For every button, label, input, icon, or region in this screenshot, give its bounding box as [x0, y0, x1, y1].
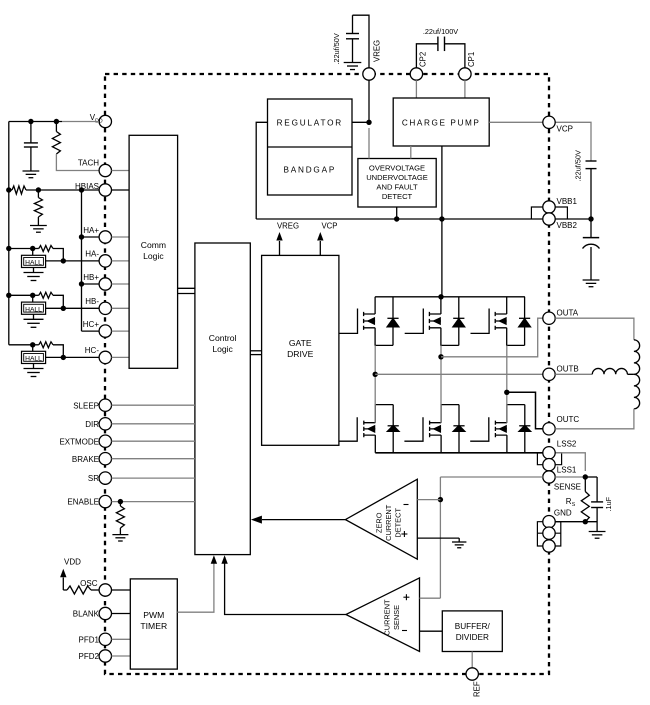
wire VDD row: [9, 121, 62, 123]
wire TACH to comm logic: [112, 170, 130, 172]
tie bracket LSS2-LSS1: [537, 453, 561, 465]
wire charge pump to fault detect block: [410, 146, 412, 159]
hall sensor 1 output wire: [46, 260, 99, 262]
wire DIR to control logic: [112, 423, 195, 425]
pin HC+: [99, 325, 111, 337]
svg-text:TACH: TACH: [78, 159, 99, 168]
op-amp ZERO CURRENT DETECT: [345, 479, 417, 559]
hall sensor 2 output wire: [46, 307, 99, 309]
transistor low-side Q5 with body diode: [404, 405, 464, 453]
node VDD resistor: [54, 119, 59, 124]
wire fault detect block to VBB bus: [396, 207, 398, 219]
wire VREG pin down to regulator node: [368, 80, 370, 122]
wire OUTB to motor winding: [555, 373, 592, 375]
svg-text:REGULATOR: REGULATOR: [277, 119, 343, 128]
svg-text:DRIVE: DRIVE: [287, 349, 314, 359]
wire ZCD plus input to ground: [417, 537, 459, 539]
resistor Rs current sense: [584, 477, 586, 492]
pin CP2: [410, 68, 422, 80]
hall sensor 1 box: [22, 255, 46, 267]
block BUFFER/DIVIDER: [442, 611, 502, 652]
svg-text:EXTMODE: EXTMODE: [59, 437, 99, 446]
svg-text:VREG: VREG: [277, 221, 299, 230]
capacitor .22uf/50V on VREG: [352, 15, 354, 33]
svg-text:HALL: HALL: [25, 260, 42, 267]
bus control logic to gate drive: [250, 350, 261, 352]
capacitor VBB bulk electrolytic: [590, 219, 592, 238]
resistor hall 2 pull-up: [33, 294, 39, 296]
pin VDD: [99, 115, 111, 127]
ground for HBIAS divider: [30, 225, 47, 227]
wire VREG node down to fault detect block: [368, 128, 370, 159]
svg-text:.22uf/50V: .22uf/50V: [574, 150, 583, 181]
svg-text:DETECT: DETECT: [382, 192, 413, 201]
resistor TACH pull-up: [55, 122, 57, 132]
bridge top rail VBB: [375, 296, 525, 298]
svg-text:HC-: HC-: [85, 346, 100, 355]
pin HBIAS: [99, 184, 111, 196]
capacitor .22uf/100V between CP2 and CP1: [416, 44, 438, 68]
node VBB rail junction: [438, 294, 443, 299]
node VREG junction: [366, 120, 371, 125]
svg-text:TIMER: TIMER: [140, 621, 167, 631]
node phase C: [504, 390, 509, 395]
svg-text:REF: REF: [473, 681, 482, 697]
capacitor .22uf/50V on VCP: [586, 160, 597, 162]
wire current sense output to control logic: [225, 557, 346, 615]
transistor low-side Q4 with body diode: [339, 405, 399, 453]
bridge bottom rail LSS: [375, 452, 543, 454]
svg-text:VBB2: VBB2: [557, 221, 578, 230]
block GATE DRIVE: [262, 255, 339, 445]
wire OUTA to motor winding: [555, 318, 634, 340]
wire HC- to comm logic: [112, 356, 130, 358]
pin OUTC: [543, 423, 555, 435]
wire regulator output to VREG node: [352, 121, 369, 123]
svg-text:VCP: VCP: [321, 221, 337, 230]
svg-text:SR: SR: [88, 474, 99, 483]
pin SENSE: [543, 471, 555, 483]
wire current sense plus input: [420, 597, 441, 599]
pin EXTMODE: [99, 435, 111, 447]
svg-text:CURRENT: CURRENT: [383, 599, 392, 636]
ground for hall sensor 1: [33, 268, 35, 273]
wire HB+ to comm logic: [112, 283, 130, 285]
VCP supply arrow into gate drive: [319, 241, 321, 255]
capacitor .1uF across Rs: [596, 477, 598, 502]
wire phase B to OUTB pin: [375, 373, 543, 375]
chip boundary (dashed): [105, 74, 549, 674]
svg-text:HBIAS: HBIAS: [75, 182, 99, 191]
VDD arrow for OSC resistor: [62, 578, 64, 591]
wire phase C to OUTC pin: [507, 392, 543, 429]
svg-text:.1uF: .1uF: [604, 496, 613, 511]
transistor high-side Q3 with body diode: [471, 297, 531, 346]
capacitor on VDD: [30, 122, 32, 143]
wire HA+ to comm logic: [112, 236, 130, 238]
block CHARGE PUMP: [393, 98, 489, 146]
svg-text:Logic: Logic: [143, 251, 164, 261]
pin VBB2: [543, 213, 555, 225]
resistor OSC timing: [67, 586, 91, 594]
pin OUTA: [543, 312, 555, 324]
svg-text:HALL: HALL: [25, 306, 42, 313]
ground for ENABLE pulldown: [112, 534, 128, 536]
wire VREG pin to bypass cap: [353, 15, 370, 68]
svg-text:GND: GND: [554, 508, 572, 517]
svg-text:SENSE: SENSE: [392, 605, 401, 630]
hall sensor 3 output wire: [46, 356, 99, 358]
pin TACH: [99, 164, 111, 176]
tie bracket GND pins: [537, 522, 560, 546]
svg-text:VBB1: VBB1: [557, 197, 578, 206]
wire LSS to sense resistor: [555, 453, 585, 471]
node phase B: [373, 372, 378, 377]
svg-text:LSS1: LSS1: [557, 465, 577, 474]
wire CP2 to charge pump: [415, 80, 417, 98]
wire HC+ to hall bias line: [82, 330, 99, 332]
inductor motor winding C: [634, 374, 640, 409]
hall sensor 3 supply wire: [9, 344, 33, 346]
pin HB-: [99, 302, 111, 314]
svg-text:.22uf/50V: .22uf/50V: [332, 33, 341, 64]
wire phase A to OUTA pin: [441, 318, 543, 357]
wire HB+ to hall bias line: [82, 283, 99, 285]
pin GND 2: [543, 527, 555, 539]
wire SLEEP to control logic: [112, 404, 195, 406]
wire charge pump down to bridge rail: [441, 146, 443, 297]
inductor motor winding B: [592, 368, 634, 374]
svg-text:DIVIDER: DIVIDER: [456, 633, 489, 642]
block Control Logic: [195, 243, 250, 555]
svg-text:HALL: HALL: [25, 356, 42, 363]
wire PFD1 to pwm timer: [112, 638, 131, 640]
node zero current detect input: [438, 497, 443, 502]
wire HA- to comm logic: [112, 260, 130, 262]
svg-text:.22uf/100V: .22uf/100V: [423, 27, 458, 36]
transistor low-side Q6 with body diode: [470, 405, 530, 453]
ground for VBB cap: [583, 279, 600, 281]
svg-text:VCP: VCP: [557, 125, 573, 134]
svg-text:LSS2: LSS2: [557, 440, 577, 449]
pin OSC: [99, 584, 111, 596]
wire SENSE line internal: [440, 476, 542, 478]
wire SR to control logic: [112, 477, 195, 479]
ground for VREG cap: [344, 62, 362, 64]
node charge pump line on VBB bus: [439, 216, 444, 221]
svg-text:ZERO: ZERO: [375, 512, 384, 533]
op-amp CURRENT SENSE: [346, 578, 420, 652]
ground for ZCD plus input: [452, 541, 466, 543]
phase column A: [440, 345, 442, 422]
pin DIR: [99, 418, 111, 430]
block REGULATOR / BANDGAP: [268, 99, 353, 195]
svg-text:BANDGAP: BANDGAP: [283, 166, 336, 175]
resistor hall 3 pull-up: [33, 344, 39, 346]
hall sensor 2 box: [22, 302, 46, 314]
pin GND: [543, 516, 555, 528]
wire pwm timer output to control logic: [177, 557, 214, 612]
transistor high-side Q1 with body diode: [339, 297, 399, 346]
svg-text:ENABLE: ENABLE: [67, 498, 99, 507]
pin VREG: [363, 68, 375, 80]
pin HB+: [99, 278, 111, 290]
svg-text:UNDERVOLTAGE: UNDERVOLTAGE: [366, 173, 428, 182]
svg-text:Control: Control: [209, 333, 237, 343]
wire BRAKE to control logic: [112, 458, 195, 460]
svg-text:PFD2: PFD2: [79, 652, 100, 661]
svg-text:PFD1: PFD1: [79, 635, 100, 644]
resistor ENABLE pulldown: [119, 502, 121, 506]
ground for hall sensor 2: [33, 314, 35, 319]
node Rs bottom: [583, 519, 588, 524]
pin OUTB: [543, 368, 555, 380]
wire ZCD output to control logic: [262, 519, 345, 521]
block PWM TIMER: [130, 579, 177, 669]
node VDD cap: [28, 119, 33, 124]
svg-text:HA+: HA+: [83, 226, 99, 235]
pin BRAKE: [99, 453, 111, 465]
svg-text:DETECT: DETECT: [394, 508, 403, 538]
svg-text:PWM: PWM: [143, 610, 164, 620]
transistor high-side Q2 with body diode: [405, 297, 465, 346]
node HBIAS divider: [36, 187, 41, 192]
node fault detect on VBB bus: [394, 216, 399, 221]
svg-text:Comm: Comm: [141, 240, 166, 250]
svg-text:AND FAULT: AND FAULT: [376, 183, 418, 192]
pin LSS2: [543, 447, 555, 459]
ground for VDD cap: [23, 170, 40, 172]
wire buffer to REF pin: [471, 652, 473, 675]
hall sensor 1 supply wire: [9, 248, 33, 250]
pin BLANK: [99, 607, 111, 619]
wire current sense minus input to buffer: [420, 630, 443, 632]
wire GND pin to ground node: [555, 521, 597, 523]
svg-text:CHARGE PUMP: CHARGE PUMP: [402, 119, 481, 128]
block OVERVOLTAGE UNDERVOLTAGE AND FAULT DETECT: [358, 159, 436, 208]
ground for hall sensor 3: [33, 364, 35, 369]
svg-text:OUTB: OUTB: [557, 364, 579, 373]
wire PFD2 to pwm timer: [112, 655, 131, 657]
wire ENABLE to control logic: [112, 501, 195, 503]
svg-text:CP2: CP2: [418, 52, 427, 67]
hall sensor 3 box: [22, 351, 46, 363]
wire sense signal down to comparators: [439, 477, 441, 598]
pin VCP: [543, 116, 555, 128]
wire HB- to comm logic: [112, 307, 130, 309]
wire regulator input from VBB bus: [256, 122, 267, 219]
svg-text:OUTC: OUTC: [557, 415, 580, 424]
svg-text:CP1: CP1: [467, 52, 476, 67]
pin ENABLE: [99, 495, 111, 507]
wire CP1 to charge pump: [464, 80, 466, 98]
resistor hall 1 pull-up: [33, 248, 39, 250]
node ENABLE pulldown: [118, 499, 123, 504]
resistor HBIAS upper: [9, 189, 12, 191]
svg-text:SLEEP: SLEEP: [73, 401, 99, 410]
tie bracket VBB1-VBB2: [531, 207, 567, 219]
svg-text:S: S: [572, 502, 576, 508]
pin PFD1: [99, 633, 111, 645]
block Comm Logic: [129, 135, 178, 368]
wire EXTMODE to control logic: [112, 440, 195, 442]
phase column C: [506, 345, 508, 422]
wire OSC to pwm timer: [112, 589, 131, 591]
node VBB cap junction: [588, 216, 593, 221]
pin CP1: [459, 68, 471, 80]
node sense resistor top: [583, 474, 588, 479]
pin REF: [466, 668, 478, 680]
svg-text:HC+: HC+: [83, 320, 100, 329]
svg-text:BLANK: BLANK: [73, 610, 100, 619]
pin HC-: [99, 351, 111, 363]
svg-text:BRAKE: BRAKE: [72, 455, 99, 464]
wire charge pump to VCP pin and cap: [489, 122, 591, 161]
left VDD rail: [8, 122, 10, 345]
resistor HBIAS lower: [37, 190, 39, 198]
svg-text:HB-: HB-: [85, 297, 99, 306]
svg-text:GATE: GATE: [289, 338, 312, 348]
pin HA-: [99, 255, 111, 267]
pin HA+: [99, 231, 111, 243]
svg-text:OUTA: OUTA: [557, 308, 579, 317]
svg-text:HA-: HA-: [85, 250, 99, 259]
pin GND 3: [543, 540, 555, 552]
wire BLANK to pwm timer: [112, 613, 131, 615]
wire motor winding to OUTC: [555, 409, 634, 429]
svg-text:Logic: Logic: [212, 344, 233, 354]
bus comm logic to control logic: [178, 287, 195, 289]
wire ZCD minus input: [417, 499, 440, 501]
svg-text:HB+: HB+: [83, 273, 99, 282]
ground for sense network: [589, 531, 606, 533]
node phase A: [438, 354, 443, 359]
svg-text:OSC: OSC: [80, 579, 98, 588]
node HBIAS rail: [6, 187, 11, 192]
VREG supply arrow into gate drive: [279, 241, 281, 255]
svg-text:VDD: VDD: [64, 558, 81, 567]
inductor motor winding A: [634, 340, 640, 375]
svg-text:OVERVOLTAGE: OVERVOLTAGE: [369, 164, 425, 173]
wire HA+ to hall bias line: [82, 236, 99, 238]
svg-text:SENSE: SENSE: [554, 482, 581, 491]
pin LSS1: [543, 459, 555, 471]
svg-text:DIR: DIR: [85, 420, 99, 429]
svg-text:BUFFER/: BUFFER/: [455, 622, 491, 631]
pin SR: [99, 472, 111, 484]
hall sensor 2 supply wire: [9, 294, 33, 296]
svg-text:CURRENT: CURRENT: [384, 504, 393, 541]
wire SENSE to sense resistor node: [555, 476, 585, 478]
svg-text:VREG: VREG: [372, 40, 381, 62]
wire VBB bus: [256, 218, 591, 220]
pin SLEEP: [99, 399, 111, 411]
wire HC+ to comm logic: [112, 330, 130, 332]
hall bias vertical line: [81, 190, 83, 331]
pin PFD2: [99, 650, 111, 662]
phase column B: [374, 345, 376, 422]
wire HBIAS to comm logic: [112, 189, 130, 191]
